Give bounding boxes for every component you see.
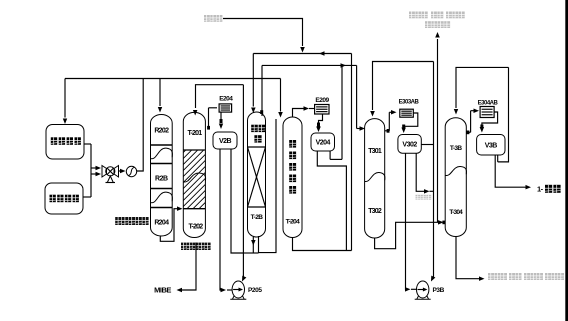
wire T-302 bottoms to T-3B feed: [375, 220, 446, 249]
svg-text:MIBE: MIBE: [154, 285, 171, 294]
label wash column: [251, 125, 265, 143]
label T302: [368, 208, 382, 215]
wire E-303 to V-302: [401, 113, 417, 133]
label T-204: [286, 219, 300, 226]
svg-text:E303AB: E303AB: [399, 100, 420, 106]
wire V-2B to pump P-205 suction: [220, 149, 233, 292]
wire T-3B overhead to E-304: [466, 109, 479, 135]
label T-304: [449, 209, 463, 216]
wire feed down into reactor column: [158, 79, 162, 113]
drum V-204: [311, 133, 335, 151]
wire wash column bottoms header: [243, 237, 258, 253]
drum V-302: [398, 135, 421, 154]
wire tank outlets to mixer: [83, 144, 101, 197]
wire methanol recycle into tank top: [63, 79, 67, 125]
label 1-butene: [537, 185, 561, 194]
wire C4 feed line: [223, 19, 305, 53]
wire wash overhead header: [262, 63, 357, 67]
label gray annotation near V-302 outlet: [416, 195, 432, 200]
svg-text:T-304: T-304: [449, 209, 463, 216]
wire E-304 to V-3B: [480, 112, 498, 133]
svg-text:E304AB: E304AB: [478, 100, 499, 106]
svg-text:R202: R202: [154, 128, 169, 135]
label R2B: [155, 175, 168, 182]
label T301: [368, 148, 382, 155]
wire V-2B second outlet: [231, 149, 243, 253]
label E204: [219, 96, 233, 103]
wire vent to flare: [435, 32, 440, 222]
svg-text:T-201: T-201: [187, 130, 202, 137]
drum V-2B reflux drum: [213, 132, 237, 149]
wire V-204 bottoms: [317, 151, 346, 250]
wire reflux to T-3B top: [454, 67, 509, 161]
label offgas destination (gray): [409, 12, 465, 29]
label reaction distillation column: [181, 243, 211, 250]
svg-text:T-2B: T-2B: [251, 214, 264, 221]
label heavies destination (gray): [488, 273, 564, 280]
flow element FE circle: [126, 166, 136, 176]
wire wash bottoms to recovery column: [259, 119, 277, 253]
exchanger E-303AB: [400, 109, 414, 117]
column T-3B/T-304 shell: [445, 118, 466, 237]
column T-301/T-302 shell: [365, 119, 385, 238]
label methanol recovery column: [289, 140, 296, 194]
mixer static mixer with valve: [102, 166, 119, 183]
label E209: [315, 97, 329, 104]
wire V-302 second outlet to reflux line: [416, 153, 433, 193]
wire wash water feed into column top: [251, 54, 256, 114]
wire mixed feed up to header: [137, 79, 144, 172]
svg-text:T-3B: T-3B: [450, 145, 463, 152]
column T-3B break: [445, 167, 466, 176]
label T-202: [188, 223, 203, 230]
wire V-3B second outlet: [498, 155, 509, 162]
wire T-202 bottoms MTBE product: [177, 243, 197, 293]
svg-text:T-204: T-204: [286, 219, 300, 226]
svg-text:T-202: T-202: [188, 223, 203, 230]
svg-text:P3B: P3B: [433, 287, 445, 294]
wire reflux to T-301 top: [370, 62, 435, 282]
wire recovery bottoms: [293, 238, 352, 251]
svg-text:P205: P205: [248, 287, 262, 294]
wire E-204 to V-2B drum: [219, 112, 223, 129]
label E303AB: [399, 100, 420, 106]
reactor column R-202/R-2B/R-204 shell: [151, 115, 173, 237]
label etherification reactor: [115, 217, 148, 225]
label T-2B: [251, 214, 264, 221]
svg-text:V3B: V3B: [485, 142, 498, 149]
svg-text:E209: E209: [315, 97, 329, 104]
wire reactor bottoms to T-201 feed: [160, 206, 182, 241]
svg-text:R2B: R2B: [155, 175, 168, 182]
wire T-301 overhead to E-303: [385, 110, 397, 133]
svg-text:T301: T301: [368, 148, 382, 155]
wire V-3B bottoms 1-butene product: [495, 155, 531, 189]
column T-201 catalyst hatch sections: [121, 147, 267, 209]
svg-text:V2B: V2B: [219, 138, 232, 145]
exchanger E-204: [219, 104, 232, 112]
svg-text:V204: V204: [316, 140, 331, 147]
svg-text:1-: 1-: [537, 185, 544, 194]
svg-text:V302: V302: [402, 141, 417, 148]
drum V-3B: [477, 135, 505, 156]
wire T-304 bottoms to battery limit: [456, 237, 485, 281]
svg-text:R204: R204: [154, 220, 169, 227]
pump P-205: [230, 281, 262, 299]
label MTBE: [154, 285, 171, 294]
label T-201: [187, 130, 202, 137]
wire main methanol recycle header: [65, 78, 281, 80]
label mixed C4 feed (gray): [204, 15, 222, 22]
tank T-101 methanol feed tank: [46, 125, 84, 160]
tank T-102 C4 feed tank: [45, 183, 83, 214]
wire T-301 side feed: [357, 65, 365, 130]
exchanger E-209: [315, 105, 329, 115]
label E304AB: [478, 100, 499, 106]
svg-text:E204: E204: [219, 96, 233, 103]
pump P-3B: [415, 281, 445, 299]
wire E-209 to V-204: [316, 114, 322, 132]
column T-201/T-202 shell: [183, 112, 205, 237]
label R202: [154, 128, 169, 135]
border right edge: [565, 0, 568, 321]
recovery column T-204 shell: [283, 117, 302, 238]
wire mixer to flow element: [119, 169, 126, 173]
label R204: [154, 220, 169, 227]
wire recycle methanol to tank: [278, 79, 283, 118]
wire V-302 bottoms to P-3B: [405, 153, 417, 291]
wire wash water header: [253, 51, 351, 56]
wire wash column overhead: [260, 65, 263, 116]
exchanger E-304AB: [480, 107, 494, 118]
wire recycle water downcomer: [351, 54, 353, 251]
wire recovery overhead to E-209: [293, 106, 315, 117]
label T-3B: [450, 145, 463, 152]
wire T-201 overhead to E-204: [207, 108, 217, 130]
column T-301 break: [365, 173, 385, 182]
wire branch down to V-204: [330, 65, 342, 159]
wash column packing X: [248, 147, 266, 207]
wire V-302 to pump line: [421, 144, 433, 146]
reactor column internals: [151, 145, 173, 208]
wash column T-2B shell: [248, 112, 266, 237]
wire reflux line to T-201 top: [193, 85, 247, 282]
svg-text:T302: T302: [368, 208, 382, 215]
